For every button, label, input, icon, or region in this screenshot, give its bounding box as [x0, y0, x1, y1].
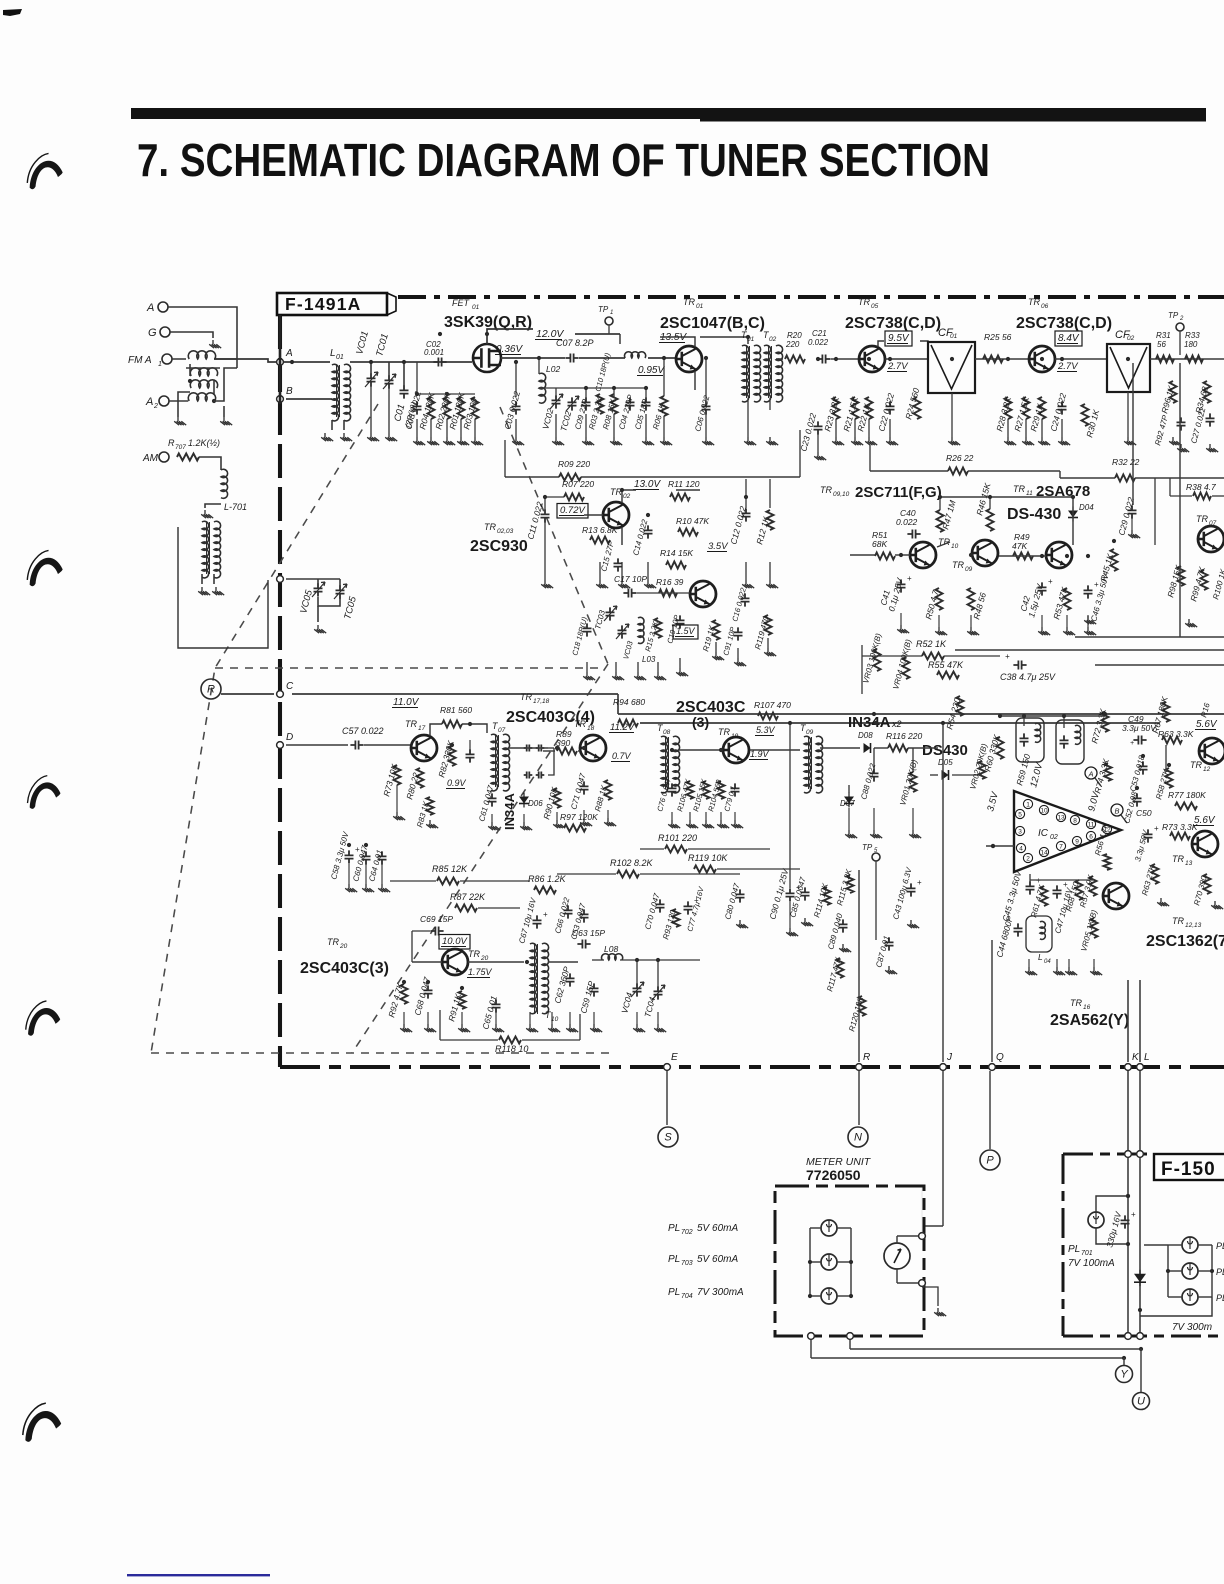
svg-text:R50 4.7: R50 4.7 [923, 589, 940, 621]
ground IC 4 [1090, 967, 1102, 975]
lamp PLc [1182, 1289, 1198, 1305]
svg-text:R102 8.2K: R102 8.2K [610, 858, 654, 868]
resistor R58 27K [1166, 768, 1173, 788]
terminal S [658, 1127, 678, 1147]
svg-text:13.0V: 13.0V [634, 479, 661, 490]
svg-text:11: 11 [1088, 822, 1095, 829]
ground osc 1 [552, 437, 564, 445]
varictor VR04 100K(B) [903, 657, 910, 679]
wire balun to bus A [214, 359, 292, 362]
svg-text:5.6V: 5.6V [1196, 719, 1218, 730]
transformer T09 [804, 736, 811, 793]
svg-text:TR: TR [468, 949, 480, 959]
ground det 3 [702, 820, 714, 828]
svg-text:8.4V: 8.4V [1058, 333, 1080, 344]
svg-text:FM A: FM A [128, 355, 152, 366]
svg-text:S: S [664, 1132, 672, 1144]
svg-text:18: 18 [587, 725, 595, 732]
resistor R99 4.7K [1201, 570, 1208, 590]
wire 12V line [575, 333, 620, 335]
svg-text:56: 56 [1157, 340, 1166, 349]
ecap C58 3.3u50V [345, 850, 354, 863]
node B [277, 396, 284, 403]
node A [277, 359, 284, 366]
svg-text:TR: TR [1172, 854, 1184, 864]
svg-text:R30 1K: R30 1K [1084, 408, 1101, 438]
svg-text:TR: TR [858, 297, 870, 307]
svg-text:VC02: VC02 [540, 407, 555, 430]
resistor R87 22K [455, 905, 477, 912]
svg-text:R106 47K: R106 47K [675, 777, 693, 813]
balun coil top [188, 351, 215, 359]
coil L04 series [625, 352, 646, 358]
wire TR20 base [412, 961, 442, 963]
ground osc2 8 [764, 648, 776, 656]
wire TR01 collector [660, 337, 695, 347]
resistor R92 4.7K [401, 984, 408, 1004]
cap C66 0.022 [564, 905, 573, 918]
cap C16 0.022 [741, 593, 750, 606]
svg-text:C89 0.040: C89 0.040 [826, 912, 844, 951]
wire TR09-TR11 [999, 555, 1046, 557]
svg-text:K: K [1132, 1052, 1140, 1063]
ground IC 1 [1025, 967, 1037, 975]
wire CF01 in [885, 358, 928, 360]
resistor R97 120K [564, 825, 586, 832]
svg-text:J: J [946, 1052, 953, 1063]
resistor R80 22 [417, 768, 424, 788]
svg-text:C87 0.01: C87 0.01 [874, 935, 891, 969]
IC02 triangle [1014, 791, 1121, 872]
varictor VR05 1K(B) [1091, 918, 1098, 938]
svg-text:5V 60mA: 5V 60mA [697, 1223, 738, 1234]
svg-text:VC05: VC05 [298, 588, 315, 614]
svg-text:2SC930: 2SC930 [470, 538, 528, 555]
wire meter box bottom [810, 1336, 812, 1358]
wire C57 to TR17 [364, 744, 411, 746]
IC02 pin 9 [1072, 836, 1081, 845]
transistor TR07 [1198, 526, 1224, 552]
svg-text:220: 220 [785, 340, 800, 349]
ground det 4 [717, 820, 729, 828]
transistor TR02 [603, 502, 629, 528]
svg-text:TR: TR [484, 522, 496, 532]
trimmer TC02 [568, 397, 577, 410]
resistor R119 10K [694, 866, 716, 873]
svg-text:20: 20 [339, 943, 348, 950]
svg-text:R86 1.2K: R86 1.2K [528, 874, 567, 884]
svg-text:TR: TR [405, 719, 417, 729]
boundary top dash-dot [398, 295, 1224, 299]
svg-text:R52 1K: R52 1K [916, 639, 947, 649]
svg-text:TR: TR [1190, 760, 1202, 770]
ground sq 1 [345, 884, 357, 892]
svg-text:10.0V: 10.0V [442, 936, 468, 947]
IC02 pin 1 [1023, 799, 1032, 808]
varicap VC05 [314, 583, 323, 596]
terminal P [980, 1150, 1000, 1170]
svg-text:3.3μ 50V: 3.3μ 50V [1122, 723, 1157, 733]
resistor R67 180K [1163, 702, 1170, 722]
ground osc 2 [582, 437, 594, 445]
cap C68 0.047 [424, 985, 433, 998]
transistor TR12 [1199, 738, 1224, 764]
svg-text:R114 10K: R114 10K [812, 882, 830, 919]
resistor R101 220 [665, 846, 687, 853]
svg-text:R92 47P: R92 47P [1153, 413, 1170, 446]
wire C90 [789, 723, 791, 888]
ground osc row 1 [400, 1024, 412, 1032]
svg-text:2SC738(C,D): 2SC738(C,D) [1016, 315, 1112, 332]
wire meter [896, 1236, 898, 1243]
ground bias 2 [427, 437, 439, 445]
svg-text:R97 120K: R97 120K [560, 812, 598, 822]
lamp PL704 [821, 1288, 837, 1304]
svg-text:01: 01 [950, 333, 958, 340]
wire TR02 base [584, 514, 603, 516]
svg-text:R88 1K: R88 1K [593, 784, 609, 813]
ground osc2 1 [583, 672, 595, 680]
svg-text:0.7V: 0.7V [612, 751, 632, 761]
transformer T01 T02 [742, 345, 749, 402]
svg-text:04: 04 [1044, 959, 1051, 965]
ground L701 a [198, 587, 210, 595]
svg-text:R118 10: R118 10 [495, 1044, 528, 1054]
svg-text:701: 701 [1081, 1250, 1093, 1257]
cap C44 6800P [1014, 923, 1023, 936]
wire A2 [169, 400, 188, 402]
resistor R04 120K [428, 397, 435, 419]
svg-text:1.5V: 1.5V [676, 626, 696, 636]
ground osc row 7 [566, 1024, 578, 1032]
resistor R05 2.2K [597, 394, 604, 414]
resistor R57 3.9K [1090, 876, 1097, 896]
varicap VC01 [367, 373, 376, 386]
ceramic filter CF02 [1107, 344, 1150, 392]
svg-text:R119 10K: R119 10K [688, 853, 728, 863]
svg-text:0.36V: 0.36V [496, 344, 523, 355]
svg-text:R20: R20 [787, 331, 802, 340]
cap C87 0.01 [885, 937, 894, 950]
svg-text:10: 10 [951, 543, 959, 550]
wire CF02 in [1055, 358, 1107, 360]
resistor R07 220 [564, 494, 584, 501]
svg-text:TR: TR [520, 692, 532, 702]
balun coil mid [190, 368, 217, 376]
ground det 8 [553, 820, 565, 828]
svg-text:12: 12 [1203, 766, 1211, 773]
svg-text:7: 7 [1059, 844, 1063, 851]
F-150 block box [1062, 1154, 1065, 1336]
svg-text:R26 22: R26 22 [946, 453, 974, 463]
transistor TR10 [910, 542, 936, 568]
ground VC05 [314, 625, 326, 633]
ground IF row 4 [742, 580, 754, 588]
svg-text:L: L [1038, 952, 1043, 962]
svg-text:01: 01 [336, 354, 344, 361]
test point TP5 [872, 853, 880, 861]
svg-text:0.9V: 0.9V [447, 778, 467, 788]
gang outline bottom dashed [151, 1052, 610, 1054]
resistor R16 39 [659, 590, 677, 597]
ground osc2 2 [612, 672, 624, 680]
wire 711 top [940, 496, 1073, 498]
svg-text:7726050: 7726050 [806, 1167, 861, 1183]
svg-text:9: 9 [1075, 839, 1079, 846]
wire C21 to TR05 [831, 358, 859, 360]
resistor R02 220K [444, 397, 451, 419]
ground osc row 9 [633, 1024, 645, 1032]
ecap 330u16V [1121, 1215, 1130, 1228]
svg-text:D08: D08 [858, 731, 873, 740]
resistor R30 1K [1082, 404, 1089, 426]
svg-text:5: 5 [1018, 812, 1022, 819]
svg-text:C11 0.022: C11 0.022 [525, 500, 545, 540]
wire IC bottom [1030, 879, 1094, 881]
resistor R68 150 [1076, 880, 1083, 900]
resistor R26 22 [948, 468, 968, 475]
cap C59 15P [590, 983, 599, 996]
ground L01 a [321, 433, 333, 441]
svg-text:12.0V: 12.0V [1028, 760, 1045, 788]
svg-text:F-150: F-150 [1161, 1159, 1216, 1180]
svg-text:A: A [146, 302, 154, 314]
wire G [170, 332, 213, 338]
cap C91 10P [734, 627, 743, 640]
svg-text:PL: PL [1216, 1241, 1224, 1251]
ground det 7 [520, 822, 532, 830]
coil L08 [602, 954, 623, 960]
lamp PLa [1182, 1237, 1198, 1253]
svg-text:02: 02 [769, 336, 777, 343]
terminal R [201, 679, 221, 699]
resistor R01 120K [458, 397, 465, 419]
ecap C45 3.3u50V [1026, 881, 1035, 894]
svg-text:R85 12K: R85 12K [432, 864, 468, 874]
svg-text:Y: Y [1120, 1369, 1128, 1381]
svg-text:FET: FET [452, 298, 471, 308]
svg-text:R100 1K: R100 1K [1211, 567, 1224, 600]
cap C40 0.022 [907, 530, 920, 539]
resistor R48 56 [968, 588, 975, 610]
ground bias 3 [443, 437, 455, 445]
svg-text:TR: TR [574, 719, 586, 729]
ground T02 [766, 437, 778, 445]
IC02 pin 8 [1070, 815, 1079, 824]
resistor R51 68K [875, 553, 895, 560]
wire R89 [543, 750, 555, 752]
svg-text:R15 2.2K: R15 2.2K [643, 619, 660, 652]
wire D04 [1072, 497, 1074, 545]
ground bias 5 [471, 437, 483, 445]
transformer T10 [530, 943, 537, 1014]
svg-text:C44 6800P: C44 6800P [994, 915, 1015, 959]
svg-text:+: + [1130, 740, 1134, 747]
resistor R82 330K [449, 746, 456, 766]
node C [277, 691, 284, 698]
ground det 9 [580, 818, 592, 826]
wire sq row [390, 880, 436, 882]
IC02 pin 6 [1086, 831, 1095, 840]
resistor R72 3.3K [1102, 712, 1109, 732]
wire right buses [1075, 636, 1224, 638]
title rule bar [131, 108, 1206, 119]
resistor R88 1K [605, 780, 612, 800]
ground osc2 3 [634, 672, 646, 680]
svg-text:x2: x2 [891, 719, 902, 729]
wire J down [942, 723, 944, 1062]
ceramic filter CF01 [928, 342, 975, 393]
resistor R63 3.3K [1162, 737, 1182, 744]
svg-text:PL: PL [1068, 1244, 1080, 1255]
ground TR05 bias 1 [832, 437, 844, 445]
wire Q to P [989, 1071, 991, 1149]
ground CF02 [1124, 437, 1136, 445]
wire TP1 [608, 325, 610, 334]
coil L02 [539, 373, 546, 403]
svg-text:D05: D05 [938, 758, 953, 767]
svg-text:08: 08 [663, 729, 671, 736]
svg-text:2SC1047(B,C): 2SC1047(B,C) [660, 315, 765, 332]
svg-text:R14 15K: R14 15K [660, 548, 693, 558]
wire A to L01 [292, 361, 330, 363]
boundary left dashed [278, 315, 282, 1067]
resistor R91 1K [459, 991, 466, 1009]
svg-text:TC04: TC04 [642, 996, 657, 1019]
node L bottom bus [1137, 1064, 1144, 1071]
resistor R74 3.3K [1105, 763, 1112, 781]
svg-text:+: + [1154, 824, 1159, 833]
resistor R118 10 [499, 1037, 521, 1044]
svg-text:TR: TR [718, 727, 730, 737]
svg-text:2.7V: 2.7V [1057, 361, 1079, 372]
resistor R84 680 [618, 720, 638, 727]
wire IC top [1000, 715, 1105, 717]
svg-text:DS-430: DS-430 [1007, 506, 1061, 523]
svg-text:180: 180 [1184, 340, 1198, 349]
IC02 pin 13 [1056, 812, 1065, 821]
node D [277, 742, 284, 749]
ecap C50 3.3u50V [1144, 829, 1153, 842]
cap C27 0.022 [1206, 413, 1215, 426]
wire T07 out [508, 747, 548, 749]
resistor R115 2.2K [847, 875, 854, 893]
resistor R120 10K [859, 996, 866, 1016]
svg-text:R07 220: R07 220 [562, 479, 594, 489]
svg-text:TR: TR [1196, 514, 1208, 524]
svg-text:47K: 47K [1012, 541, 1027, 551]
ecap C38 4.7u 25V [1013, 661, 1026, 670]
tank circuit 2 [1056, 720, 1084, 764]
wire TR01 emitter [694, 371, 696, 390]
svg-text:02: 02 [623, 493, 631, 500]
svg-text:C22 0.022: C22 0.022 [876, 392, 896, 433]
svg-text:R87 22K: R87 22K [450, 892, 486, 902]
svg-text:F-1491A: F-1491A [285, 294, 362, 314]
svg-text:C50: C50 [1136, 808, 1152, 818]
svg-text:+: + [1005, 652, 1010, 661]
ground bias 1 [413, 437, 425, 445]
svg-text:C17 10P: C17 10P [614, 574, 647, 584]
wire lamps left [809, 1228, 811, 1296]
resistor R85 12K [437, 878, 459, 885]
wire sq row2 [640, 848, 664, 850]
svg-text:C76 0.047: C76 0.047 [655, 776, 673, 813]
svg-text:R: R [207, 684, 215, 696]
ground 711 3 [967, 627, 979, 635]
cap C11 0.022 [541, 509, 550, 522]
svg-text:IN34A: IN34A [848, 714, 891, 731]
svg-text:07: 07 [498, 727, 506, 734]
node J bottom bus [940, 1064, 947, 1071]
svg-text:C59 15P: C59 15P [578, 980, 596, 1015]
transformer T08 [661, 736, 668, 793]
svg-text:2SA562(Y): 2SA562(Y) [1050, 1012, 1129, 1029]
diode D07 [844, 797, 854, 804]
ground IF row 5 [766, 580, 778, 588]
resistor R38 4.7 [1193, 493, 1211, 500]
svg-text:+: + [1131, 1210, 1136, 1219]
wire TP2 [1179, 331, 1181, 355]
svg-text:C04 220P: C04 220P [617, 393, 635, 430]
ground G [209, 340, 221, 348]
resistor R22 1K [866, 397, 873, 419]
svg-text:13: 13 [1057, 815, 1065, 822]
cap C23 0.022 [814, 421, 823, 434]
svg-text:R16: R16 [1199, 701, 1212, 718]
svg-text:02,03: 02,03 [497, 528, 514, 535]
wire into IC left [986, 845, 1014, 847]
wire AM to coil [199, 457, 221, 470]
wire lamps right [850, 1228, 852, 1296]
wire L02 top [538, 358, 540, 374]
wire A [168, 307, 237, 368]
svg-text:PL: PL [668, 1287, 680, 1298]
resistor R102 8.2K [617, 871, 639, 878]
wire bus C long [292, 693, 618, 695]
wire E to S [666, 1071, 668, 1125]
tank circuit L04 [1026, 916, 1052, 952]
ground sq 2 [362, 884, 374, 892]
svg-text:C24 0.022: C24 0.022 [1048, 392, 1068, 433]
resistor R28 3.3K [1005, 397, 1012, 419]
svg-text:01: 01 [472, 304, 480, 311]
wire VC05 gnd [317, 606, 319, 622]
svg-text:PL: PL [668, 1254, 680, 1265]
svg-text:R83 1K: R83 1K [415, 800, 431, 829]
svg-text:11.0V: 11.0V [393, 697, 420, 708]
ground VC01 [367, 433, 379, 441]
cap C60 0.047 [362, 851, 371, 864]
svg-text:3.5V: 3.5V [708, 541, 729, 552]
svg-text:TP: TP [862, 843, 873, 852]
ground sq2 [839, 944, 851, 952]
svg-text:C79 0.1: C79 0.1 [722, 785, 737, 813]
svg-text:C38 4.7μ 25V: C38 4.7μ 25V [1000, 672, 1056, 682]
gang outline diagonal right lower [352, 664, 608, 1053]
svg-text:C91 10P: C91 10P [721, 626, 737, 657]
wire Y [1123, 1358, 1125, 1365]
resistor R73b 3.3K [1170, 833, 1190, 840]
resistor R93 120 [673, 909, 680, 927]
gang outline mid horizontal [215, 667, 604, 669]
ground C06 [702, 437, 714, 445]
wire U [1140, 1349, 1142, 1392]
ground T01 [744, 437, 756, 445]
svg-text:R09 220: R09 220 [558, 459, 590, 469]
transformer L-701 [202, 521, 209, 578]
wire K L inside box [1127, 1158, 1129, 1332]
